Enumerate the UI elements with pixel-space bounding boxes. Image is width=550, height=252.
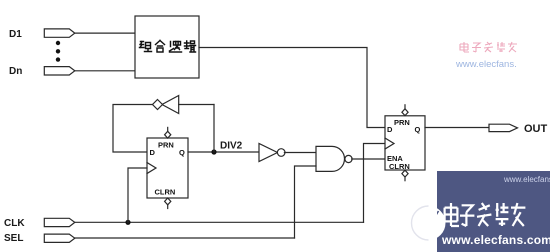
svg-text:SEL: SEL: [4, 233, 23, 244]
辑: [185, 41, 196, 52]
riser DIV2 to U1 input: [213, 105, 215, 153]
wire CLK bus: [75, 221, 364, 223]
FF1 clear diamond: [165, 198, 171, 209]
svg-text:D: D: [150, 148, 156, 157]
watermark (top right) 电子发烧友 pink: [460, 42, 517, 52]
elecfans logo circle: [412, 206, 446, 240]
wire NAND output to FF2 ENA: [352, 158, 385, 160]
FF2 clock wedge: [385, 138, 394, 149]
FF2 clear diamond: [402, 170, 408, 181]
svg-text:Q: Q: [179, 148, 185, 157]
wire SEL bus: [75, 237, 295, 239]
svg-text:Dn: Dn: [9, 66, 22, 77]
svg-text:D1: D1: [9, 29, 22, 40]
svg-text:Q: Q: [415, 125, 421, 134]
svg-text:D: D: [387, 125, 393, 134]
elecfans logo ghost (left of strip): [412, 206, 429, 240]
junction DIV2: [211, 149, 216, 154]
wire logic block output to FF2 D: [199, 48, 385, 128]
组: [140, 42, 152, 52]
svg-text:www.elecfans.com: www.elecfans.com: [441, 233, 550, 247]
svg-text:CLK: CLK: [4, 218, 25, 229]
逻: [170, 42, 182, 53]
wire U2 output to NAND input 1: [284, 152, 316, 154]
label 组合逻辑 (drawn strokes): [140, 41, 196, 53]
wire CLK riser to FF2 clock: [364, 144, 386, 223]
input pin Dn: [44, 67, 75, 75]
combinational logic block 组合逻辑: [135, 16, 199, 78]
wire U1 output to FF1 D: [113, 105, 153, 153]
FF1 clock wedge: [147, 163, 156, 174]
inverter U1 (feedback, pointing left): [153, 96, 179, 114]
FF2 preset diamond: [402, 105, 408, 116]
output pin OUT: [489, 124, 518, 131]
ellipsis dots between D1 and Dn: [56, 41, 60, 62]
svg-text:DIV2: DIV2: [220, 141, 243, 152]
bubble (diamond) of U1: [153, 100, 163, 110]
wire CLK riser to FF1 clock: [128, 168, 147, 222]
flip-flop FF2: [385, 116, 425, 170]
wire U1 input from DIV2 riser: [179, 104, 214, 106]
svg-text:OUT: OUT: [524, 123, 548, 135]
flip-flop FF1: [147, 138, 188, 198]
wire D1 to logic block: [75, 32, 135, 34]
svg-text:www.elecfans.: www.elecfans.: [503, 175, 550, 184]
svg-text:PRN: PRN: [158, 141, 174, 150]
input pin SEL: [44, 234, 75, 242]
input pin D1: [44, 29, 75, 37]
合: [156, 41, 165, 53]
svg-text:CLRN: CLRN: [389, 162, 410, 171]
wire FF2 Q to OUT: [425, 127, 489, 129]
wire Dn to logic block: [75, 70, 135, 72]
svg-text:www.elecfans.: www.elecfans.: [455, 59, 517, 70]
NAND gate U3: [316, 146, 352, 171]
FF1 preset diamond: [165, 127, 171, 138]
strip brand 电子发烧友 white: [445, 203, 526, 226]
input pin CLK: [44, 218, 75, 226]
wire SEL riser to NAND input 2: [295, 166, 317, 238]
watermark strip (bottom right): [412, 171, 550, 252]
wire FF1 Q to inverter U2 (node DIV2): [188, 151, 259, 153]
inverter U2: [259, 144, 285, 162]
junction CLK: [125, 220, 130, 225]
svg-text:CLRN: CLRN: [155, 188, 176, 197]
svg-text:PRN: PRN: [394, 118, 410, 127]
